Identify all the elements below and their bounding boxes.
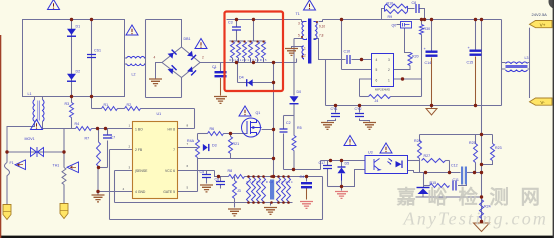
svg-text:U1: U1 <box>157 112 162 116</box>
svg-text:R2: R2 <box>127 103 132 107</box>
svg-text:AnyTesting.com: AnyTesting.com <box>403 209 549 229</box>
svg-text:R4A: R4A <box>187 139 195 143</box>
svg-text:4: 4 <box>154 56 156 60</box>
svg-text:D4: D4 <box>239 76 244 80</box>
svg-text:C3: C3 <box>228 21 233 25</box>
svg-text:1: 1 <box>388 79 390 83</box>
svg-text:R20: R20 <box>412 55 419 59</box>
svg-text:CY1: CY1 <box>331 107 338 111</box>
svg-text:嘉峪检测网: 嘉峪检测网 <box>396 186 552 209</box>
svg-text:C8: C8 <box>412 1 417 5</box>
svg-text:F1: F1 <box>10 161 14 165</box>
svg-text:R30: R30 <box>424 27 431 31</box>
svg-text:C10: C10 <box>344 50 351 54</box>
svg-text:1: 1 <box>304 47 306 51</box>
svg-text:R6: R6 <box>210 127 215 131</box>
svg-text:V+: V+ <box>540 22 546 27</box>
svg-text:L2: L2 <box>132 73 136 77</box>
svg-text:R23: R23 <box>495 146 502 150</box>
svg-text:L1: L1 <box>28 92 32 96</box>
svg-text:D2: D2 <box>76 70 81 74</box>
svg-text:TH1: TH1 <box>53 164 60 168</box>
svg-text:6: 6 <box>376 79 378 83</box>
svg-text:2 FB: 2 FB <box>135 148 143 152</box>
svg-text:C7: C7 <box>111 136 116 140</box>
svg-text:CS1: CS1 <box>94 49 101 53</box>
svg-text:MIP2E4MD: MIP2E4MD <box>375 87 391 91</box>
svg-text:GATE 5: GATE 5 <box>163 190 175 194</box>
svg-text:4 GND: 4 GND <box>135 190 146 194</box>
svg-text:2: 2 <box>202 56 204 60</box>
svg-text:5: 5 <box>376 68 378 72</box>
svg-text:C4: C4 <box>300 175 305 179</box>
svg-text:C11: C11 <box>453 178 459 182</box>
svg-text:T1: T1 <box>296 12 300 16</box>
svg-text:C1: C1 <box>212 65 217 69</box>
svg-text:R25: R25 <box>469 141 476 145</box>
svg-text:DB1: DB1 <box>184 37 191 41</box>
svg-text:R1: R1 <box>104 103 109 107</box>
svg-text:1 BO: 1 BO <box>135 128 143 132</box>
svg-text:9,10: 9,10 <box>319 25 325 29</box>
svg-text:Q1: Q1 <box>256 111 261 115</box>
svg-text:D0: D0 <box>297 90 302 94</box>
svg-text:L3: L3 <box>525 56 529 60</box>
svg-text:MOV1: MOV1 <box>25 137 35 141</box>
svg-text:C14: C14 <box>425 61 432 65</box>
svg-text:R4: R4 <box>75 122 80 126</box>
svg-text:3: 3 <box>298 22 300 26</box>
svg-text:R10: R10 <box>387 2 394 6</box>
svg-text:R8: R8 <box>228 169 233 173</box>
svg-text:J3: J3 <box>237 189 241 193</box>
svg-text:HV 8: HV 8 <box>167 128 175 132</box>
svg-text:24V2.5A: 24V2.5A <box>532 12 548 17</box>
svg-text:VCC 6: VCC 6 <box>165 169 175 173</box>
svg-text:C2: C2 <box>286 121 291 125</box>
svg-text:R7: R7 <box>85 137 90 141</box>
svg-text:7: 7 <box>173 148 175 152</box>
svg-text:V-: V- <box>540 100 545 105</box>
svg-text:J4: J4 <box>375 99 379 103</box>
svg-text:4: 4 <box>376 58 378 62</box>
svg-text:7,8: 7,8 <box>319 34 324 38</box>
svg-text:5: 5 <box>298 34 300 38</box>
svg-text:R9: R9 <box>388 15 393 19</box>
svg-text:D3: D3 <box>212 144 217 148</box>
svg-text:R5: R5 <box>297 126 302 130</box>
svg-text:R15: R15 <box>430 181 437 185</box>
svg-text:C12: C12 <box>451 164 458 168</box>
svg-text:R21: R21 <box>233 142 240 146</box>
svg-text:R27: R27 <box>424 154 431 158</box>
svg-text:U3: U3 <box>368 150 373 154</box>
svg-text:C15: C15 <box>467 61 474 65</box>
svg-text:|SENSE: |SENSE <box>135 169 148 173</box>
svg-text:R28: R28 <box>414 139 421 143</box>
svg-text:Q0: Q0 <box>392 23 397 27</box>
svg-text:C5: C5 <box>200 170 205 174</box>
svg-text:R3: R3 <box>65 102 70 106</box>
svg-text:D1: D1 <box>76 25 81 29</box>
svg-text:D5: D5 <box>345 162 350 166</box>
svg-text:3: 3 <box>388 58 390 62</box>
svg-text:CY2: CY2 <box>355 107 362 111</box>
svg-text:2: 2 <box>304 54 306 58</box>
svg-text:C17: C17 <box>319 161 326 165</box>
svg-text:2: 2 <box>388 68 390 72</box>
